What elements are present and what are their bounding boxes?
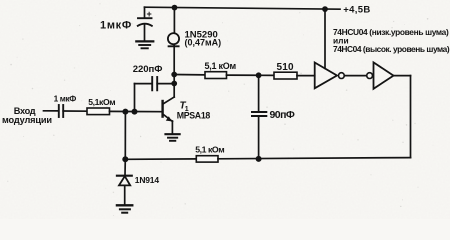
inverter U1a triangle [315, 63, 337, 89]
wire feedback right vertical [410, 76, 412, 158]
svg-text:+: + [147, 9, 152, 19]
resistor R2 5.1k body [205, 72, 227, 79]
wire node to R3 [259, 74, 274, 76]
wire U1a to U1b [344, 75, 366, 77]
capacitor C3 90pF top plate [252, 111, 266, 113]
wire C3 to bottom rail [258, 117, 260, 159]
resistor R1 5.1k input body [87, 108, 110, 115]
wire C1 to ground [144, 25, 146, 41]
node junction top rail / inverter supply [322, 6, 328, 12]
transistor Q1 emitter lead [163, 114, 173, 122]
wire node down to D2 [124, 159, 126, 175]
wire rail to D1 circle [173, 8, 175, 34]
transistor Q1 base bar [161, 101, 163, 117]
wire C2 left horizontal [135, 83, 153, 85]
diode D2 triangle [119, 176, 130, 185]
capacitor C4 right plate [62, 105, 64, 117]
node junction top rail / C1 / D1 [172, 5, 178, 11]
capacitor C2 right plate [156, 77, 158, 90]
wire R3 to inverter U1a input [297, 75, 315, 77]
node bottom rail left [122, 156, 128, 162]
transistor Q1 collector lead [163, 97, 175, 104]
capacitor C1 1mkF polarized top plate [138, 17, 152, 19]
wire C2 left leg down to base line [134, 84, 136, 112]
svg-text:74HCU04 (низк.уровень шума): 74HCU04 (низк.уровень шума) [333, 27, 449, 37]
svg-text:5,1 кОм: 5,1 кОм [205, 61, 237, 71]
ground under emitter [166, 133, 180, 135]
inverter U1b input bubble [367, 73, 373, 79]
svg-text:1мкФ: 1мкФ [100, 20, 132, 32]
node base / bottom feedback [122, 109, 128, 115]
wire U1b output [394, 75, 411, 77]
svg-text:5,1 кОм: 5,1 кОм [195, 145, 224, 155]
wire bottom feedback rail [125, 158, 196, 160]
wire C3 down from node [258, 75, 260, 110]
transistor Q1 emitter arrow [166, 116, 172, 121]
svg-text:+4,5В: +4,5В [343, 5, 370, 16]
ground under D2 [117, 204, 132, 206]
wire top supply rail [145, 7, 341, 9]
svg-text:90пФ: 90пФ [270, 109, 295, 121]
wire R1 to base node [110, 110, 163, 112]
node collector / R feed [171, 72, 177, 78]
wire C4 to R1 [63, 110, 87, 112]
svg-text:1N914: 1N914 [135, 175, 160, 185]
wire C2 right to collector node [157, 83, 174, 85]
svg-text:модуляции: модуляции [2, 115, 52, 125]
svg-text:510: 510 [277, 62, 295, 73]
node collector / C2 [171, 81, 177, 87]
svg-text:74HC04 (высок. уровень шума): 74HC04 (высок. уровень шума) [333, 44, 450, 54]
svg-text:5,1кОм: 5,1кОм [88, 97, 115, 107]
resistor R4 5.1k feedback body [196, 156, 218, 162]
wire base node down to bottom rail [124, 112, 126, 160]
node bottom rail / C3 [256, 156, 262, 162]
capacitor C3 bottom plate [252, 115, 266, 117]
wire node to R2 [174, 74, 205, 76]
svg-text:220пФ: 220пФ [133, 64, 163, 75]
capacitor C1 curved bottom plate [138, 24, 152, 26]
node base / C2 leg [132, 109, 138, 115]
node junction R2/C3/R3 [256, 72, 262, 78]
ground under C1 [136, 40, 153, 42]
capacitor C2 220pF left plate [151, 77, 153, 90]
svg-text:1 мкФ: 1 мкФ [54, 94, 77, 104]
resistor R3 510 body [274, 72, 297, 79]
wire inverter supply drop [324, 9, 326, 68]
wire input stub from label [44, 110, 59, 112]
inverter U1b triangle [374, 62, 394, 88]
current-regulator diode D1 1N5290 circle [168, 33, 179, 44]
svg-text:(0,47мА): (0,47мА) [185, 38, 222, 48]
wire stub from rail down to C1 [144, 7, 146, 17]
diode D2 1N914 cathode bar [117, 175, 132, 177]
wire R4 to bottom rail right [218, 158, 411, 159]
capacitor C4 1mkF input left plate [58, 105, 60, 117]
diode D1 bar [169, 45, 179, 47]
wire D2 to ground [124, 185, 126, 204]
wire R2 to node C3 [227, 74, 259, 76]
wire D1 to collector node [173, 44, 175, 97]
wire emitter to ground [171, 121, 173, 134]
inverter U1a output bubble [339, 73, 345, 79]
svg-text:MPSA18: MPSA18 [177, 111, 211, 121]
